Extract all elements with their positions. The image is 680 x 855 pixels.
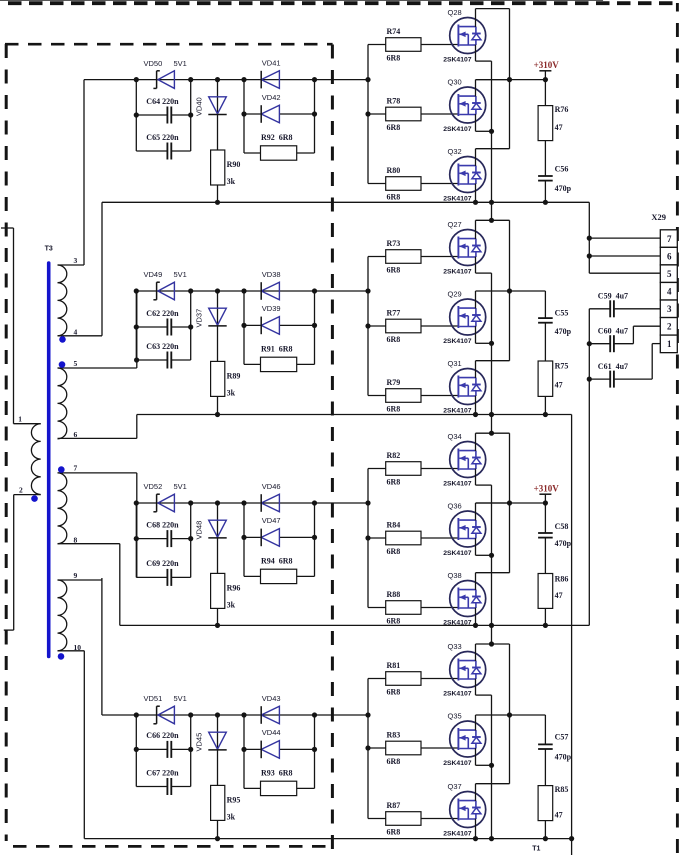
svg-text:Q32: Q32 [448,147,462,156]
svg-text:VD40: VD40 [195,97,204,116]
svg-text:9: 9 [74,571,78,580]
svg-text:2SK4107: 2SK4107 [443,408,472,415]
svg-text:C62 220n: C62 220n [146,309,179,318]
svg-text:VD50: VD50 [144,59,163,68]
svg-text:C65 220n: C65 220n [146,133,179,142]
svg-text:VD47: VD47 [262,516,281,525]
svg-text:R85: R85 [555,785,569,794]
svg-text:R82: R82 [387,451,401,460]
svg-text:6: 6 [667,251,672,261]
svg-text:6R8: 6R8 [387,688,401,697]
svg-text:Q27: Q27 [448,220,462,229]
svg-text:6: 6 [74,430,78,439]
svg-text:5V1: 5V1 [174,270,187,279]
svg-text:C63 220n: C63 220n [146,342,179,351]
svg-text:Q36: Q36 [448,502,462,511]
svg-text:R77: R77 [387,308,401,317]
svg-text:C66 220n: C66 220n [146,731,179,740]
svg-text:5V1: 5V1 [174,694,187,703]
svg-text:2SK4107: 2SK4107 [443,481,472,488]
svg-text:VD48: VD48 [195,521,204,540]
svg-text:3k: 3k [227,389,236,398]
svg-text:7: 7 [667,234,672,244]
svg-text:8: 8 [74,536,78,545]
svg-text:10: 10 [74,643,82,652]
svg-text:R96: R96 [227,584,241,593]
svg-text:C59 4u7: C59 4u7 [598,292,628,301]
svg-text:Q38: Q38 [448,571,462,580]
svg-text:R94 6R8: R94 6R8 [261,556,293,565]
svg-text:C68 220n: C68 220n [146,520,179,529]
svg-text:X29: X29 [651,212,666,222]
svg-text:R73: R73 [387,239,401,248]
svg-text:VD43: VD43 [262,694,281,703]
svg-text:3k: 3k [227,177,236,186]
svg-text:Q31: Q31 [448,359,462,368]
svg-text:C67 220n: C67 220n [146,768,179,777]
svg-text:VD46: VD46 [262,482,281,491]
svg-text:6R8: 6R8 [387,123,401,132]
svg-text:1: 1 [18,415,22,424]
svg-text:47: 47 [555,591,563,600]
svg-text:6R8: 6R8 [387,405,401,414]
svg-text:6R8: 6R8 [387,266,401,275]
svg-text:T3: T3 [45,246,53,253]
svg-text:R86: R86 [555,575,569,584]
svg-text:Q33: Q33 [448,642,462,651]
svg-text:Q35: Q35 [448,712,462,721]
svg-text:4: 4 [74,327,78,336]
svg-text:6R8: 6R8 [387,547,401,556]
svg-text:R91 6R8: R91 6R8 [261,344,293,353]
svg-text:C56: C56 [555,165,569,174]
svg-text:C58: C58 [555,522,569,531]
svg-text:VD49: VD49 [144,270,163,279]
svg-text:3: 3 [74,256,78,265]
svg-text:6R8: 6R8 [387,335,401,344]
svg-text:VD52: VD52 [144,482,163,491]
svg-text:R75: R75 [555,362,569,371]
svg-text:R80: R80 [387,166,401,175]
svg-text:R84: R84 [387,520,401,529]
svg-text:47: 47 [555,123,563,132]
svg-text:470p: 470p [555,753,572,762]
svg-text:R95: R95 [227,796,241,805]
svg-text:R74: R74 [387,27,401,36]
svg-text:2SK4107: 2SK4107 [443,126,472,133]
svg-text:R90: R90 [227,160,241,169]
svg-text:470p: 470p [555,539,572,548]
svg-text:470p: 470p [555,184,572,193]
svg-text:R88: R88 [387,590,401,599]
svg-text:C55: C55 [555,309,569,318]
svg-text:R78: R78 [387,96,401,105]
svg-text:Q28: Q28 [448,8,462,17]
svg-text:2SK4107: 2SK4107 [443,760,472,767]
svg-text:2: 2 [667,322,672,332]
svg-text:R76: R76 [555,105,569,114]
svg-text:2SK4107: 2SK4107 [443,269,472,276]
svg-text:2SK4107: 2SK4107 [443,831,472,838]
svg-text:VD37: VD37 [195,309,204,328]
svg-text:VD44: VD44 [262,728,281,737]
svg-text:6R8: 6R8 [387,828,401,837]
svg-text:47: 47 [555,811,563,820]
svg-text:2SK4107: 2SK4107 [443,691,472,698]
svg-text:VD39: VD39 [262,304,281,313]
svg-text:Q29: Q29 [448,290,462,299]
svg-text:2SK4107: 2SK4107 [443,338,472,345]
svg-text:VD51: VD51 [144,694,163,703]
svg-text:3k: 3k [227,601,236,610]
svg-text:47: 47 [555,381,563,390]
svg-text:5V1: 5V1 [174,59,187,68]
svg-text:5V1: 5V1 [174,482,187,491]
svg-text:Q37: Q37 [448,782,462,791]
svg-text:R79: R79 [387,378,401,387]
svg-text:C64 220n: C64 220n [146,97,179,106]
svg-text:2SK4107: 2SK4107 [443,620,472,627]
svg-text:3k: 3k [227,813,236,822]
svg-text:R83: R83 [387,730,401,739]
svg-text:1: 1 [667,339,672,349]
svg-text:2SK4107: 2SK4107 [443,57,472,64]
svg-text:T1: T1 [532,846,540,853]
svg-text:VD45: VD45 [195,733,204,752]
svg-text:3: 3 [667,304,672,314]
svg-text:C69 220n: C69 220n [146,559,179,568]
svg-text:R89: R89 [227,372,241,381]
svg-text:6R8: 6R8 [387,54,401,63]
svg-text:6R8: 6R8 [387,617,401,626]
svg-text:6R8: 6R8 [387,757,401,766]
svg-text:R87: R87 [387,801,401,810]
svg-text:+310V: +310V [534,484,560,494]
svg-text:6R8: 6R8 [387,478,401,487]
svg-text:5: 5 [667,269,672,279]
svg-text:R81: R81 [387,661,401,670]
svg-text:VD41: VD41 [262,59,281,68]
svg-text:Q34: Q34 [448,432,462,441]
svg-text:C61 4u7: C61 4u7 [598,362,628,371]
svg-text:6R8: 6R8 [387,193,401,202]
svg-text:Q30: Q30 [448,78,462,87]
svg-text:VD42: VD42 [262,93,281,102]
svg-text:+310V: +310V [534,60,560,70]
svg-text:VD38: VD38 [262,270,281,279]
svg-text:2SK4107: 2SK4107 [443,196,472,203]
svg-text:R93 6R8: R93 6R8 [261,768,293,777]
svg-text:2: 2 [19,486,23,495]
svg-text:2SK4107: 2SK4107 [443,550,472,557]
svg-text:5: 5 [74,359,78,368]
svg-text:7: 7 [74,464,78,473]
svg-text:C57: C57 [555,733,569,742]
svg-text:C60 4u7: C60 4u7 [598,326,628,335]
svg-text:4: 4 [667,286,672,296]
svg-text:470p: 470p [555,327,572,336]
svg-text:R92 6R8: R92 6R8 [261,133,293,142]
